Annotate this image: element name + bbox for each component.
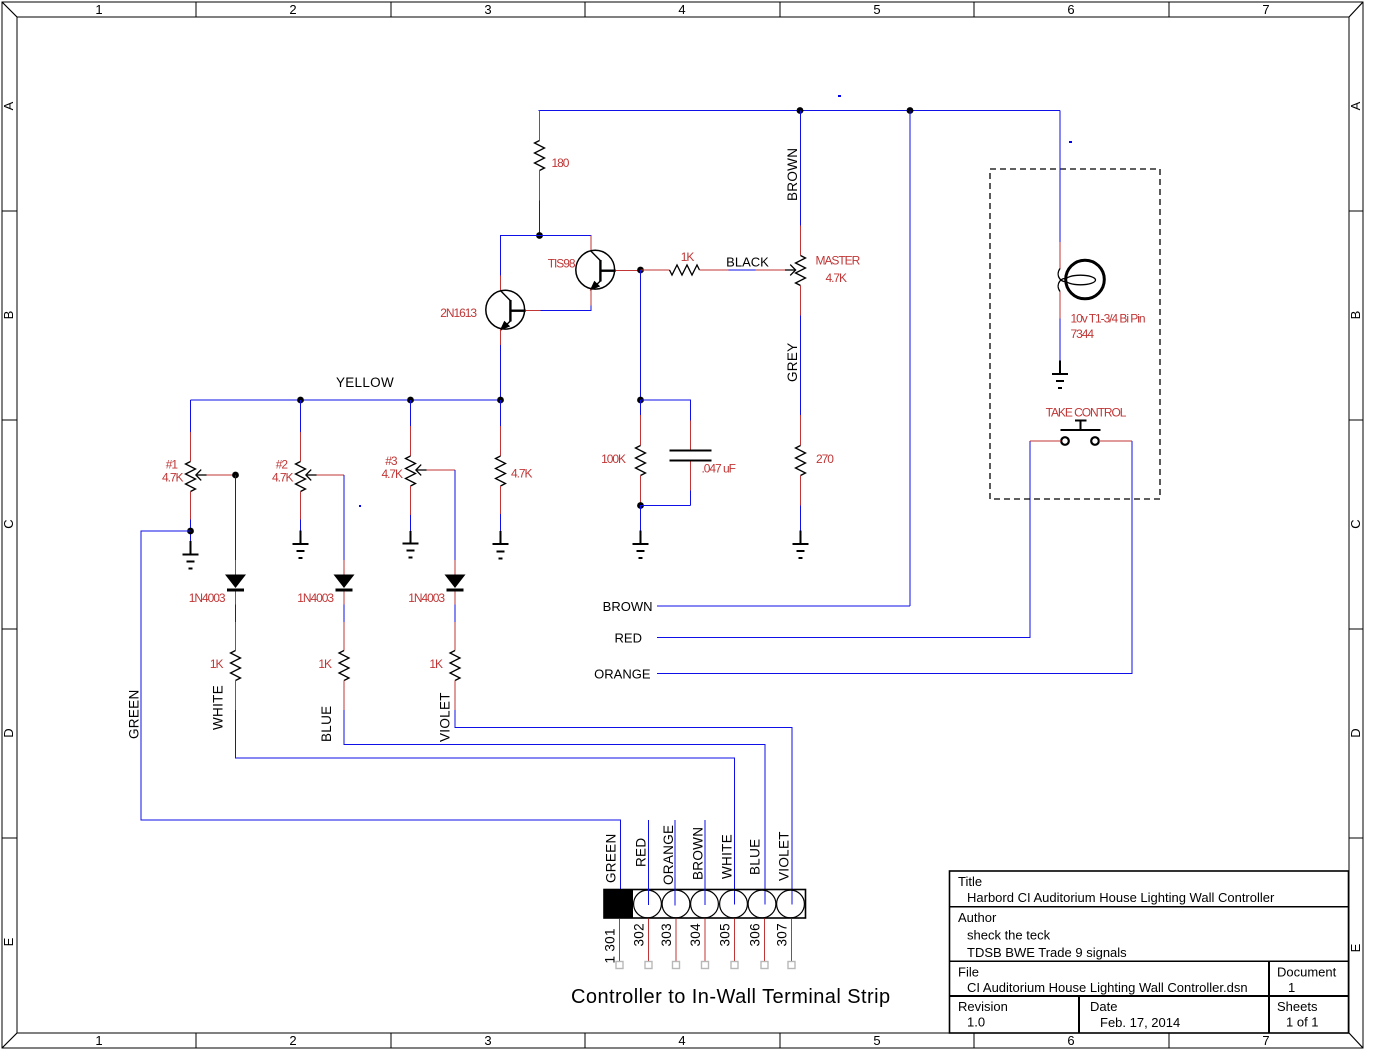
frame column numbers top: [95, 2, 1269, 17]
svg-text:B: B: [1, 311, 16, 320]
svg-text:VIOLET: VIOLET: [438, 692, 453, 742]
svg-text:1K: 1K: [210, 657, 224, 671]
resistor R 1K white: [231, 622, 241, 710]
svg-text:CI Auditorium House Lighting W: CI Auditorium House Lighting Wall Contro…: [967, 980, 1248, 995]
resistor R 1K blue: [339, 622, 349, 710]
wire RED horizontal: [657, 441, 1030, 638]
svg-text:2: 2: [289, 1033, 296, 1048]
wire D3 to R violet: [454, 605, 456, 623]
svg-text:4: 4: [678, 1033, 685, 1048]
svg-text:Harbord CI Auditorium House Li: Harbord CI Auditorium House Lighting Wal…: [967, 890, 1275, 905]
ground below 100K: [633, 531, 649, 559]
potentiometer #2 4.7K: [296, 400, 345, 531]
resistor R 100K: [636, 400, 646, 506]
frame column dividers bottom: [196, 1033, 1169, 1048]
pin lead 304: [704, 919, 706, 962]
junction yellow bus emitter: [497, 397, 504, 404]
svg-text:1K: 1K: [429, 657, 443, 671]
svg-text:Revision: Revision: [958, 999, 1008, 1014]
terminal circle 306: [748, 890, 776, 918]
svg-text:#1: #1: [166, 458, 179, 472]
wire to cap top: [641, 400, 691, 421]
svg-text:100K: 100K: [601, 452, 626, 466]
svg-text:Feb. 17, 2014: Feb. 17, 2014: [1100, 1015, 1180, 1030]
svg-text:TDSB BWE Trade 9 signals: TDSB BWE Trade 9 signals: [967, 945, 1127, 960]
wire brown riser x910: [909, 111, 911, 607]
wire base node down to 100K: [640, 270, 642, 400]
svg-text:sheck the teck: sheck the teck: [967, 928, 1051, 943]
wire ORANGE horizontal: [657, 441, 1132, 674]
frame column numbers bottom: [95, 1033, 1269, 1048]
capacitor C .047uF: [670, 421, 712, 506]
svg-text:6: 6: [1067, 1033, 1074, 1048]
ground below pot1: [183, 541, 199, 569]
push button SW take control: [1030, 421, 1132, 445]
terminal 301 black square: [604, 890, 633, 919]
ground below 270: [793, 531, 809, 559]
terminal circle 303: [662, 890, 690, 918]
pin unconnected square 302: [645, 962, 652, 969]
svg-text:BLACK: BLACK: [726, 255, 769, 270]
wire green from pot1: [141, 531, 621, 905]
diode D3 1N4003: [445, 560, 466, 605]
svg-text:1: 1: [1288, 980, 1295, 995]
svg-text:1 301: 1 301: [603, 928, 618, 963]
wire BROWN horizontal: [657, 605, 910, 607]
svg-text:302: 302: [632, 923, 647, 946]
resistor R 1K base: [641, 265, 729, 275]
wire BLACK segment: [729, 269, 756, 271]
svg-text:YELLOW: YELLOW: [336, 375, 394, 390]
junction on bus at master pot: [797, 107, 804, 114]
svg-text:2: 2: [289, 2, 296, 17]
junction base node: [637, 267, 644, 274]
svg-text:303: 303: [659, 923, 674, 946]
transistor Q1 2N1613: [486, 276, 541, 346]
svg-text:ORANGE: ORANGE: [594, 667, 651, 682]
svg-text:4.7K: 4.7K: [382, 467, 404, 481]
svg-text:7: 7: [1262, 1033, 1269, 1048]
wire orange stub into strip: [674, 820, 676, 906]
svg-text:Document: Document: [1277, 965, 1337, 980]
svg-text:4.7K: 4.7K: [162, 471, 184, 485]
junction below 180: [536, 232, 543, 239]
stray dot artifacts: [359, 95, 1072, 507]
resistor R 180: [535, 111, 545, 236]
svg-text:A: A: [1348, 101, 1363, 110]
lamp DS1 10v T1-3/4 Bi Pin 7344: [1058, 242, 1104, 361]
ground below lamp: [1052, 361, 1068, 389]
svg-text:7344: 7344: [1071, 327, 1095, 341]
pin unconnected square 307: [788, 962, 795, 969]
svg-text:3: 3: [484, 2, 491, 17]
svg-text:BROWN: BROWN: [785, 148, 800, 201]
pin lead 305: [734, 919, 736, 962]
pin unconnected square 306: [761, 962, 768, 969]
svg-text:1K: 1K: [318, 657, 332, 671]
frame row letters left: [1, 101, 16, 946]
wire TIS98 emitter to 2N1613 base: [541, 306, 592, 311]
svg-text:1N4003: 1N4003: [297, 591, 334, 605]
svg-text:1 of 1: 1 of 1: [1286, 1015, 1319, 1030]
svg-text:Author: Author: [958, 910, 997, 925]
terminal circle 307: [777, 890, 805, 918]
svg-text:#2: #2: [276, 458, 289, 472]
svg-text:Controller to In-Wall Terminal: Controller to In-Wall Terminal Strip: [571, 986, 891, 1008]
transistor Q2 TIS98: [576, 236, 641, 306]
pin unconnected square 301: [616, 962, 623, 969]
svg-text:E: E: [1, 937, 16, 946]
svg-text:2N1613: 2N1613: [440, 306, 477, 320]
diode D2 1N4003: [334, 560, 355, 605]
ground below pot3: [403, 531, 419, 558]
wire brown stub into strip: [704, 820, 706, 905]
pin unconnected square 303: [673, 962, 680, 969]
terminal circle 302: [634, 890, 662, 918]
terminal strip body: [604, 890, 806, 919]
svg-text:GREEN: GREEN: [127, 689, 142, 739]
wire YELLOW bus: [191, 399, 501, 401]
svg-text:RED: RED: [634, 838, 649, 867]
wire pot1 wiper down to diode: [235, 475, 237, 560]
svg-text:6: 6: [1067, 2, 1074, 17]
svg-text:306: 306: [748, 923, 763, 946]
svg-text:307: 307: [775, 923, 790, 946]
svg-text:5: 5: [873, 2, 880, 17]
frame column dividers top: [196, 2, 1169, 17]
pin lead 307: [791, 919, 793, 962]
wire D2 to R blue: [343, 605, 345, 623]
svg-text:270: 270: [816, 452, 834, 466]
svg-text:4.7K: 4.7K: [272, 471, 294, 485]
wire to master wiper: [756, 269, 786, 271]
svg-text:1N4003: 1N4003: [408, 591, 445, 605]
junction yellow bus pot3: [407, 397, 414, 404]
svg-text:.047 uF: .047 uF: [702, 462, 736, 476]
terminal circle 304: [691, 890, 719, 918]
svg-text:1: 1: [95, 2, 102, 17]
frame row letters right: [1348, 101, 1363, 952]
pin lead 306: [764, 919, 766, 962]
wire cap bottom to 100K bottom: [641, 506, 691, 531]
svg-text:D: D: [1348, 728, 1363, 737]
junction 100K bottom: [637, 502, 644, 509]
svg-text:File: File: [958, 965, 979, 980]
svg-text:TIS98: TIS98: [548, 257, 576, 271]
svg-text:#3: #3: [385, 454, 398, 468]
wire pot2 wiper tail: [343, 475, 345, 560]
ground below pot2: [293, 531, 309, 559]
frame row dividers left: [2, 211, 17, 838]
junction pot1 bottom green: [187, 528, 194, 535]
svg-text:4.7K: 4.7K: [826, 271, 848, 285]
wire red stub into strip: [648, 820, 650, 905]
ground below 4.7K: [493, 531, 509, 559]
potentiometer MASTER 4.7K: [785, 111, 806, 416]
junction 100K top: [637, 397, 644, 404]
pin lead 302: [648, 919, 650, 962]
svg-text:1K: 1K: [681, 250, 695, 264]
svg-text:VIOLET: VIOLET: [777, 831, 792, 881]
potentiometer #1 4.7K: [186, 400, 236, 541]
svg-text:1.0: 1.0: [967, 1015, 985, 1030]
svg-text:B: B: [1348, 311, 1363, 320]
svg-text:RED: RED: [615, 631, 642, 646]
junction on bus at brown riser: [907, 107, 914, 114]
title block row lines: [950, 907, 1349, 1033]
svg-text:WHITE: WHITE: [211, 685, 226, 730]
potentiometer #3 4.7K: [406, 400, 456, 531]
svg-text:GREY: GREY: [785, 343, 800, 382]
svg-text:GREEN: GREEN: [604, 833, 619, 883]
terminal circle 305: [720, 890, 748, 918]
junction yellow bus pot2: [297, 397, 304, 404]
svg-text:5: 5: [873, 1033, 880, 1048]
resistor R 1K violet: [450, 622, 460, 710]
svg-text:TAKE CONTROL: TAKE CONTROL: [1046, 406, 1127, 420]
title block outline: [950, 871, 1349, 1033]
diode D1 1N4003: [225, 560, 246, 605]
svg-text:7: 7: [1262, 2, 1269, 17]
svg-text:Title: Title: [958, 874, 982, 889]
svg-text:BLUE: BLUE: [319, 706, 334, 742]
pin unconnected square 304: [702, 962, 709, 969]
resistor R 270: [796, 415, 806, 531]
wire white to strip: [236, 710, 735, 905]
resistor R 4.7K fixed: [496, 400, 506, 531]
svg-text:305: 305: [718, 923, 733, 946]
pin lead 303: [675, 919, 677, 962]
svg-text:ORANGE: ORANGE: [661, 825, 676, 885]
wire collector node: [501, 236, 592, 276]
svg-text:C: C: [1348, 519, 1363, 528]
svg-text:3: 3: [484, 1033, 491, 1048]
svg-text:D: D: [1, 728, 16, 737]
wire top supply bus: [539, 110, 1061, 112]
wire 2N1613 emitter to yellow bus: [500, 345, 502, 400]
junction pot1 wiper: [232, 472, 239, 479]
svg-text:Sheets: Sheets: [1277, 999, 1318, 1014]
frame row dividers right: [1349, 211, 1363, 838]
svg-text:1: 1: [95, 1033, 102, 1048]
svg-text:10v T1-3/4 Bi Pin: 10v T1-3/4 Bi Pin: [1071, 312, 1145, 326]
pin unconnected square 305: [731, 962, 738, 969]
wire D1 to R white: [235, 605, 237, 623]
svg-text:1N4003: 1N4003: [189, 591, 226, 605]
svg-text:Date: Date: [1090, 999, 1117, 1014]
wire violet to strip: [455, 710, 792, 905]
svg-text:BROWN: BROWN: [603, 599, 653, 614]
svg-text:MASTER: MASTER: [816, 254, 861, 268]
svg-text:E: E: [1348, 943, 1363, 952]
svg-text:BLUE: BLUE: [748, 839, 763, 875]
svg-text:BROWN: BROWN: [691, 827, 706, 880]
svg-text:WHITE: WHITE: [720, 834, 735, 879]
svg-text:C: C: [1, 519, 16, 528]
wire pot3 wiper tail: [454, 470, 456, 560]
wire lamp feed: [1059, 111, 1061, 242]
svg-text:180: 180: [552, 156, 570, 170]
pin lead 301: [619, 919, 621, 962]
wire blue to strip: [344, 710, 765, 905]
svg-text:4.7K: 4.7K: [511, 467, 533, 481]
svg-text:A: A: [1, 101, 16, 110]
dashed remote box: [990, 169, 1160, 499]
svg-text:4: 4: [678, 2, 685, 17]
svg-text:304: 304: [688, 923, 703, 947]
